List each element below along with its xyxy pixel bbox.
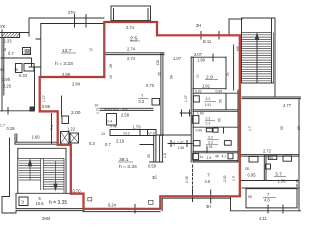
svg-text:1.22: 1.22 — [67, 127, 76, 132]
svg-text:1.1: 1.1 — [172, 141, 176, 146]
svg-text:5б: 5б — [280, 126, 284, 130]
svg-text:0.33: 0.33 — [19, 73, 28, 78]
svg-text:Кб: Кб — [297, 126, 301, 130]
svg-text:0.95: 0.95 — [248, 173, 257, 178]
svg-text:9.24: 9.24 — [108, 203, 117, 208]
svg-text:0.3: 0.3 — [89, 141, 95, 146]
svg-text:1.8: 1.8 — [163, 153, 167, 158]
svg-text:1.60: 1.60 — [32, 134, 41, 139]
svg-text:2.5: 2.5 — [130, 37, 138, 43]
svg-text:ПБ: ПБ — [245, 167, 250, 171]
svg-text:7: 7 — [207, 173, 210, 179]
svg-text:4.77: 4.77 — [283, 103, 292, 108]
svg-text:7.4: 7.4 — [50, 125, 54, 130]
svg-text:5б: 5б — [219, 99, 223, 103]
svg-text:б 7: б 7 — [8, 51, 14, 56]
svg-text:1.07: 1.07 — [173, 56, 182, 61]
svg-text:2.07: 2.07 — [194, 52, 203, 57]
svg-text:5б: 5б — [248, 195, 252, 199]
svg-text:14.2: 14.2 — [123, 132, 130, 136]
svg-text:5Н: 5Н — [170, 74, 174, 79]
svg-text:27Н: 27Н — [68, 10, 76, 15]
svg-text:1.17: 1.17 — [42, 95, 46, 102]
svg-text:2.19: 2.19 — [116, 138, 125, 143]
svg-text:h = 3.34: h = 3.34 — [119, 164, 137, 170]
svg-text:h = 3.35: h = 3.35 — [49, 200, 67, 206]
svg-text:НВ: НВ — [236, 46, 240, 51]
svg-text:1з: 1з — [89, 48, 93, 52]
svg-text:2.3: 2.3 — [206, 122, 211, 126]
svg-text:0.3: 0.3 — [139, 99, 145, 104]
svg-text:2з: 2з — [226, 72, 230, 76]
svg-text:2.89: 2.89 — [62, 72, 71, 77]
svg-text:1.7: 1.7 — [0, 124, 5, 128]
svg-text:3б: 3б — [14, 68, 18, 72]
svg-text:0.59: 0.59 — [148, 164, 157, 169]
svg-text:В 11: В 11 — [203, 39, 212, 44]
svg-text:4.11: 4.11 — [259, 216, 267, 221]
svg-text:1.91: 1.91 — [202, 84, 211, 89]
svg-text:1б: 1б — [95, 104, 99, 108]
svg-text:3.2: 3.2 — [206, 97, 211, 101]
svg-text:ЗНИ: ЗНИ — [42, 216, 50, 221]
svg-text:1.91: 1.91 — [206, 145, 213, 149]
svg-text:0.48: 0.48 — [110, 124, 117, 128]
svg-text:3Н: 3Н — [196, 23, 201, 28]
svg-text:3Н: 3Н — [206, 204, 211, 209]
svg-text:0.99: 0.99 — [216, 90, 223, 94]
svg-text:1.90: 1.90 — [197, 112, 204, 116]
svg-text:2.00: 2.00 — [71, 110, 81, 116]
svg-text:1з: 1з — [200, 155, 204, 159]
svg-text:1.96: 1.96 — [178, 146, 185, 150]
svg-text:2.52: 2.52 — [223, 175, 227, 182]
svg-text:0.71: 0.71 — [96, 107, 100, 114]
svg-text:0.7: 0.7 — [105, 142, 111, 147]
svg-text:7б: 7б — [158, 72, 162, 76]
svg-text:1.58: 1.58 — [278, 179, 287, 184]
svg-text:0.92: 0.92 — [195, 90, 202, 94]
svg-text:5б: 5б — [218, 118, 222, 122]
svg-text:2Н: 2Н — [109, 63, 113, 68]
svg-text:1.07: 1.07 — [184, 95, 188, 102]
svg-text:2.2: 2.2 — [206, 117, 211, 121]
svg-text:1б: 1б — [109, 75, 113, 79]
svg-text:1.90: 1.90 — [197, 58, 206, 63]
svg-text:0.28: 0.28 — [7, 126, 16, 131]
svg-text:СВ: СВ — [156, 60, 160, 65]
svg-text:2.26: 2.26 — [3, 84, 12, 89]
svg-text:1.47: 1.47 — [177, 141, 184, 145]
svg-text:0.70: 0.70 — [146, 83, 155, 88]
svg-text:4.6: 4.6 — [264, 198, 270, 203]
svg-text:2.2: 2.2 — [208, 136, 213, 140]
svg-text:2.74: 2.74 — [127, 56, 136, 61]
svg-text:3б: 3б — [152, 175, 157, 180]
svg-text:2.72: 2.72 — [263, 149, 272, 154]
svg-text:1.91: 1.91 — [205, 103, 212, 107]
svg-text:УК: УК — [0, 24, 6, 29]
svg-text:4.1: 4.1 — [222, 154, 227, 158]
svg-text:94: 94 — [0, 68, 4, 72]
svg-text:2.33: 2.33 — [4, 39, 13, 44]
svg-text:0.4: 0.4 — [108, 120, 113, 124]
svg-text:1.9: 1.9 — [207, 156, 212, 160]
svg-text:13: 13 — [101, 132, 105, 136]
svg-text:3.9б: 3.9б — [2, 77, 11, 82]
svg-text:0.90: 0.90 — [196, 128, 203, 132]
svg-text:4б: 4б — [215, 154, 219, 158]
svg-text:1.7: 1.7 — [248, 126, 252, 131]
svg-text:1.3: 1.3 — [232, 176, 236, 181]
svg-text:54: 54 — [269, 156, 273, 160]
svg-text:3б: 3б — [147, 154, 151, 158]
svg-text:2.58: 2.58 — [121, 112, 130, 117]
svg-text:1.79: 1.79 — [133, 125, 142, 130]
svg-text:h = 3.23: h = 3.23 — [55, 61, 73, 67]
svg-text:4.6: 4.6 — [205, 179, 211, 184]
svg-text:2.74: 2.74 — [127, 47, 136, 52]
svg-text:2.08: 2.08 — [185, 176, 189, 183]
svg-text:10.6: 10.6 — [36, 201, 45, 206]
svg-text:0.70: 0.70 — [73, 188, 82, 193]
svg-text:Э: Э — [21, 200, 24, 205]
svg-text:17.8: 17.8 — [148, 132, 155, 136]
svg-text:2.84: 2.84 — [72, 82, 81, 87]
svg-text:0.86: 0.86 — [42, 104, 51, 109]
svg-text:2.74: 2.74 — [126, 25, 135, 30]
svg-text:1з: 1з — [196, 74, 200, 78]
svg-text:3.3: 3.3 — [208, 141, 213, 145]
